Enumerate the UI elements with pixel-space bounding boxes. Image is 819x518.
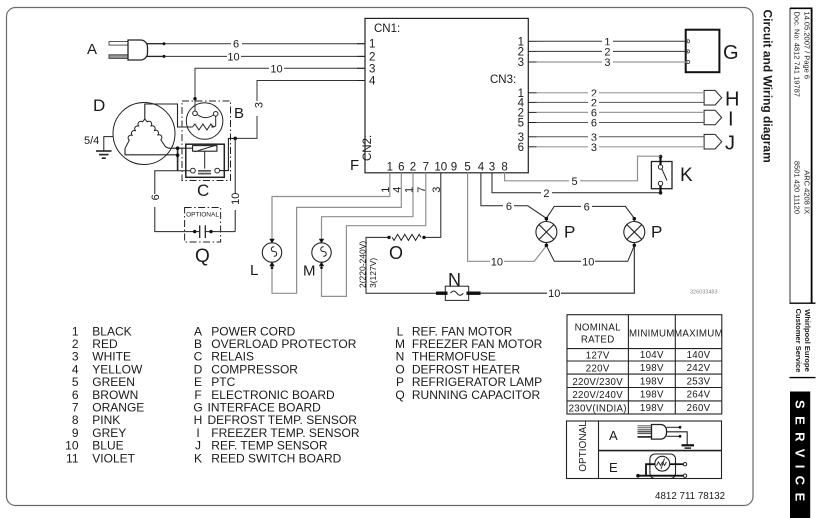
svg-text:220V/230V: 220V/230V <box>572 377 623 388</box>
svg-text:10: 10 <box>227 52 239 64</box>
svg-text:J: J <box>725 133 735 155</box>
wire 6 (lamp P1 to lamp P2) <box>546 200 634 218</box>
wire 7 (CN2 pin7 to fan M) <box>322 173 429 297</box>
sidebar whirlpool block <box>790 303 816 377</box>
svg-text:O: O <box>389 243 403 263</box>
voltage table text <box>569 323 723 415</box>
optional ground <box>682 445 695 448</box>
connector CN3 right edge pins <box>490 36 537 154</box>
wire 6 (CN2 pin4 to lamp P1) <box>481 173 547 219</box>
svg-text:7: 7 <box>423 162 429 174</box>
compressor D <box>93 96 193 165</box>
svg-text:8501 420 11120: 8501 420 11120 <box>793 161 802 214</box>
svg-text:4: 4 <box>369 76 376 88</box>
svg-text:Customer Service: Customer Service <box>794 309 803 373</box>
ref. temp sensor J <box>704 133 735 155</box>
sidebar doc info <box>793 12 812 215</box>
svg-text:6: 6 <box>518 142 524 154</box>
freezer fan motor M <box>303 239 331 280</box>
wire 6 (plug to CN1 pin1) <box>165 37 365 51</box>
svg-text:MAXIMUM: MAXIMUM <box>674 329 723 340</box>
wire 10 (CN2 pin5 to lamp P1) <box>468 173 547 268</box>
svg-text:6: 6 <box>150 194 162 200</box>
svg-text:104V: 104V <box>640 350 664 361</box>
optional variants box <box>567 421 722 479</box>
svg-text:REED SWITCH BOARD: REED SWITCH BOARD <box>211 451 341 465</box>
svg-text:I: I <box>728 108 734 130</box>
svg-text:127V: 127V <box>586 350 610 361</box>
sidebar title <box>761 10 775 163</box>
wire 10 (lamp P1 to lamp P2) <box>546 246 634 269</box>
svg-text:14.05.2007 / Page 6: 14.05.2007 / Page 6 <box>803 12 812 80</box>
svg-text:264V: 264V <box>687 390 711 401</box>
freezer temp. sensor I <box>704 108 733 130</box>
reed switch board K <box>651 155 693 195</box>
svg-text:198V: 198V <box>640 390 664 401</box>
wire 10 (plug to CN1 pin2) <box>165 50 365 64</box>
wire 3 (to J pin3) <box>537 131 705 144</box>
svg-text:8: 8 <box>501 162 507 174</box>
wire 6 (to I pin5) <box>537 116 705 129</box>
svg-text:A: A <box>87 41 97 58</box>
svg-text:4: 4 <box>392 187 404 193</box>
svg-text:6: 6 <box>506 201 512 213</box>
wire 3 (CN2 pin10 to defrost heater O) <box>424 173 443 238</box>
wire 2 (to H pin1) <box>537 87 705 100</box>
legend components L-Q <box>395 324 543 402</box>
svg-text:2: 2 <box>543 188 549 200</box>
svg-text:5: 5 <box>464 162 470 174</box>
svg-text:6: 6 <box>398 162 404 174</box>
svg-text:CN1:: CN1: <box>374 23 400 35</box>
svg-text:3: 3 <box>604 57 610 69</box>
svg-text:6: 6 <box>233 39 239 51</box>
svg-text:MINIMUM: MINIMUM <box>629 329 675 340</box>
svg-text:3: 3 <box>254 102 266 108</box>
svg-text:ARC 4208 IX: ARC 4208 IX <box>803 170 812 214</box>
optional power cord variant A <box>609 425 687 445</box>
svg-text:3: 3 <box>369 63 375 75</box>
connector CN1 <box>357 23 400 88</box>
svg-text:10: 10 <box>491 256 503 268</box>
wire 2 (CN2 pin3 to K) <box>492 173 661 200</box>
svg-text:7: 7 <box>416 187 428 193</box>
electronic board F <box>350 18 528 174</box>
svg-text:1: 1 <box>380 187 392 193</box>
svg-text:10: 10 <box>230 193 242 205</box>
legend wire colours (numbers column) <box>65 324 144 465</box>
sidebar rules <box>790 8 813 303</box>
overload protector B (dash-dot enclosure with relay C) <box>182 101 244 181</box>
power cord A <box>87 40 166 60</box>
svg-text:2: 2 <box>369 51 375 63</box>
svg-text:326033483: 326033483 <box>690 290 718 296</box>
wire (relay right terminal to node 3) <box>220 137 237 171</box>
ground (compressor casing) <box>84 135 113 158</box>
svg-text:C: C <box>197 181 209 200</box>
connector CN2 <box>362 135 508 174</box>
svg-text:P: P <box>564 223 575 242</box>
wire 6 (to I pin2) <box>537 106 705 119</box>
svg-text:K: K <box>194 451 202 465</box>
svg-text:2: 2 <box>410 162 416 174</box>
wire 1 (CN2 pin2 to fan M) <box>322 173 416 240</box>
legend components A-K <box>193 324 360 465</box>
wire 10 (node 3 down to capacitor Q) <box>217 138 242 231</box>
wire 3 (to G) <box>537 56 688 69</box>
wire 10 (CN1 pin3 to overload B) <box>193 62 365 111</box>
svg-text:198V: 198V <box>640 363 664 374</box>
svg-text:5: 5 <box>572 176 578 188</box>
service banner <box>790 392 810 518</box>
svg-text:F: F <box>350 157 359 174</box>
svg-text:E: E <box>609 460 618 475</box>
defrost temp. sensor H <box>704 89 739 111</box>
voltage table <box>567 315 722 414</box>
thermofuse N <box>436 270 481 300</box>
wire 4 (CN2 pin6 to fan L) <box>272 173 404 293</box>
wire 5 (CN2 pin8 to K) <box>505 156 661 188</box>
svg-text:2(220-240V): 2(220-240V) <box>358 241 368 288</box>
svg-text:3(127V): 3(127V) <box>368 258 378 288</box>
svg-text:D: D <box>93 96 105 115</box>
svg-text:230V(INDIA): 230V(INDIA) <box>569 403 627 414</box>
svg-text:Circuit and Wiring diagram: Circuit and Wiring diagram <box>761 10 775 163</box>
svg-text:Q: Q <box>395 388 404 402</box>
svg-text:CN2:: CN2: <box>362 135 374 161</box>
ref. fan motor L <box>250 239 282 279</box>
svg-text:H: H <box>725 89 739 111</box>
svg-text:4812 711 78132: 4812 711 78132 <box>655 491 725 502</box>
svg-text:220V: 220V <box>586 363 610 374</box>
refrigerator lamp P2 <box>624 217 663 247</box>
svg-text:140V: 140V <box>687 350 711 361</box>
wire 6 (relay left terminal down to capacitor Q) <box>149 171 191 232</box>
svg-text:B: B <box>234 105 244 122</box>
interface board G <box>686 30 739 72</box>
wire 2 (to H pin4) <box>537 96 705 109</box>
svg-text:SERVICE: SERVICE <box>793 400 808 509</box>
wire 10 (thermofuse N to lamp P2) <box>481 246 635 301</box>
node junctions left of relay <box>176 146 193 170</box>
wire 3 (CN1 pin4 to relay/capacitor node) <box>236 81 365 139</box>
svg-text:K: K <box>680 165 693 186</box>
svg-text:10: 10 <box>582 256 594 268</box>
svg-text:OPTIONAL: OPTIONAL <box>186 212 219 219</box>
svg-text:1: 1 <box>403 187 415 193</box>
svg-text:10: 10 <box>548 288 560 300</box>
svg-text:1: 1 <box>387 162 393 174</box>
svg-text:3: 3 <box>591 142 597 154</box>
svg-text:VIOLET: VIOLET <box>92 451 135 465</box>
svg-text:4: 4 <box>478 162 485 174</box>
svg-text:Whirlpool Europe: Whirlpool Europe <box>803 309 812 372</box>
optional PTC variant E <box>609 454 687 479</box>
svg-text:220V/240V: 220V/240V <box>572 390 623 401</box>
svg-text:10: 10 <box>434 162 447 174</box>
svg-text:11: 11 <box>66 451 79 465</box>
svg-text:9: 9 <box>451 162 457 174</box>
svg-text:10: 10 <box>270 63 282 75</box>
svg-text:198V: 198V <box>640 376 664 387</box>
svg-text:6: 6 <box>584 201 590 213</box>
drawing number <box>690 290 718 296</box>
svg-text:RATED: RATED <box>581 335 615 346</box>
voltage note (rotated) <box>358 241 379 288</box>
svg-text:Doc. No: 4812 741 19787: Doc. No: 4812 741 19787 <box>793 12 802 97</box>
svg-text:G: G <box>723 42 739 64</box>
svg-text:6: 6 <box>591 118 597 130</box>
svg-text:3: 3 <box>431 187 443 193</box>
svg-text:OPTIONAL: OPTIONAL <box>578 421 589 472</box>
svg-text:260V: 260V <box>687 403 711 414</box>
svg-text:5: 5 <box>518 118 524 130</box>
refrigerator lamp P1 <box>536 217 575 247</box>
svg-text:M: M <box>303 263 316 280</box>
svg-text:5/4: 5/4 <box>84 135 99 147</box>
svg-text:L: L <box>250 262 258 279</box>
wire 1 (CN2 pin1 to fan L) <box>272 173 392 240</box>
svg-text:253V: 253V <box>687 376 711 387</box>
part number <box>655 491 725 502</box>
svg-text:198V: 198V <box>640 403 664 414</box>
wire 2 (to G) <box>537 45 688 58</box>
svg-text:1: 1 <box>369 39 375 51</box>
svg-text:NOMINAL: NOMINAL <box>575 323 622 334</box>
defrost heater O <box>366 234 436 293</box>
svg-text:Q: Q <box>195 246 210 267</box>
wire 3 (to J pin6) <box>537 141 705 154</box>
running capacitor Q <box>185 208 221 268</box>
svg-text:RUNNING CAPACITOR: RUNNING CAPACITOR <box>412 388 541 402</box>
svg-text:CN3:: CN3: <box>490 74 516 86</box>
svg-text:P: P <box>651 223 662 242</box>
svg-text:242V: 242V <box>687 363 711 374</box>
relais C <box>186 144 225 200</box>
svg-text:3: 3 <box>518 57 524 69</box>
wire 1 (CN1 right pin1 to G) <box>537 35 688 48</box>
svg-text:A: A <box>609 428 618 443</box>
svg-text:3: 3 <box>489 162 495 174</box>
svg-text:N: N <box>448 270 461 290</box>
